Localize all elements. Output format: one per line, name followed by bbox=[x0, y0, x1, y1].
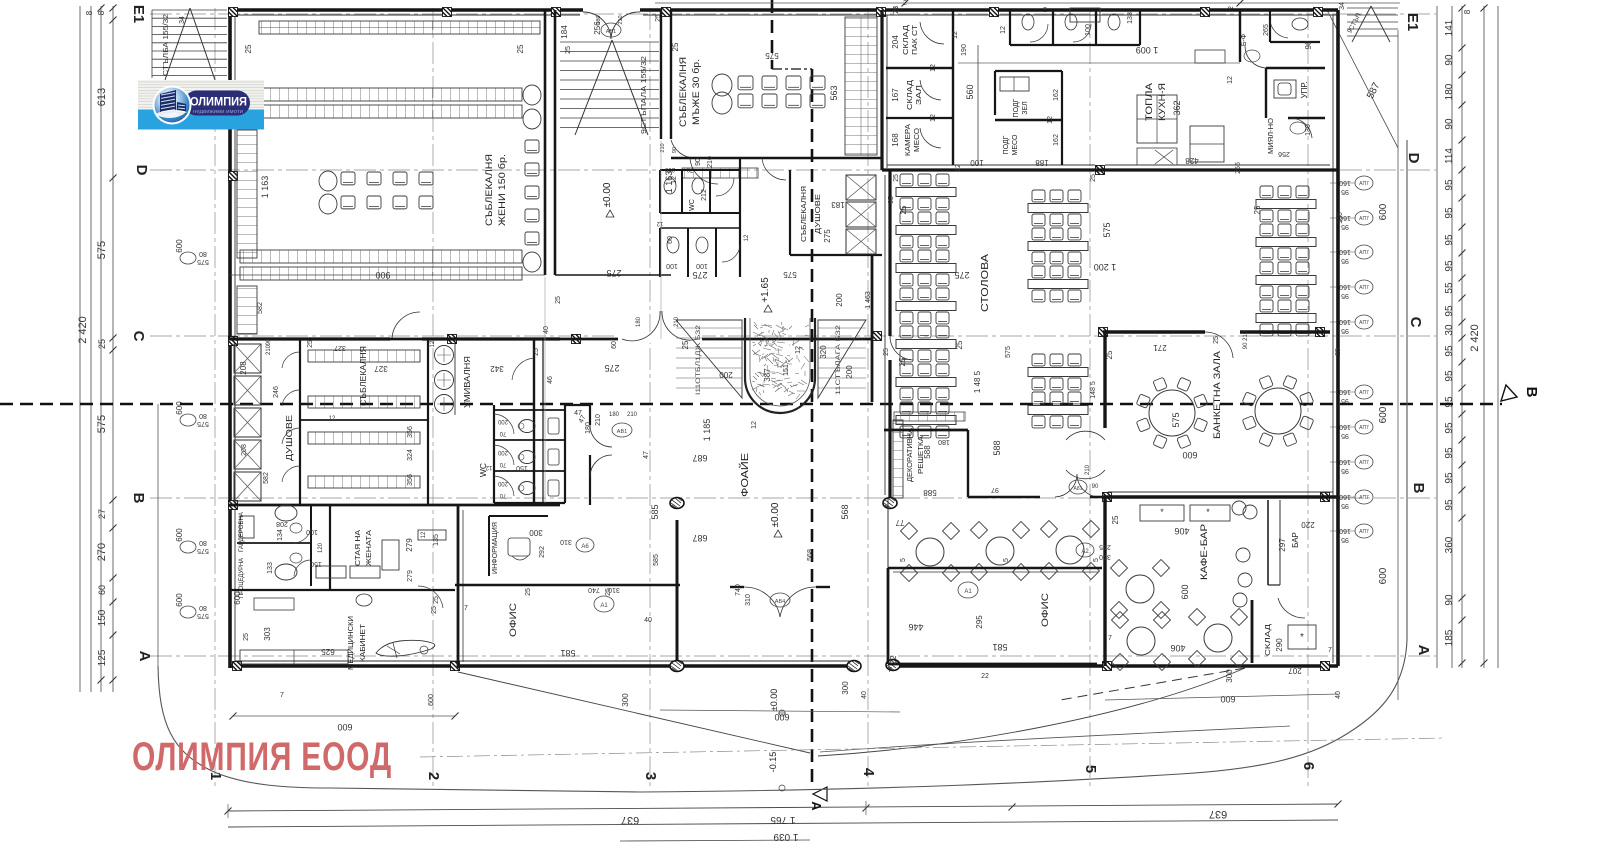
svg-text:687: 687 bbox=[692, 533, 707, 543]
svg-text:1 765: 1 765 bbox=[770, 814, 795, 825]
dining tables column C bbox=[1256, 186, 1316, 336]
svg-text:12: 12 bbox=[952, 31, 959, 39]
svg-text:АП7: АП7 bbox=[1359, 250, 1369, 256]
svg-text:АВ4: АВ4 bbox=[775, 599, 785, 605]
svg-text:208: 208 bbox=[241, 444, 248, 456]
svg-text:310: 310 bbox=[560, 538, 572, 545]
svg-text:34: 34 bbox=[1339, 2, 1346, 10]
svg-text:34: 34 bbox=[179, 16, 186, 24]
svg-text:25: 25 bbox=[955, 340, 964, 349]
svg-text:60: 60 bbox=[667, 236, 674, 244]
exterior stair top-right + 587 reference diagonal bbox=[1327, 2, 1398, 148]
svg-text:7: 7 bbox=[1328, 647, 1332, 654]
svg-text:25: 25 bbox=[655, 14, 662, 22]
svg-text:290: 290 bbox=[1275, 638, 1284, 652]
svg-text:СЪБЛЕКАЛНЯ: СЪБЛЕКАЛНЯ bbox=[484, 154, 495, 226]
svg-text:740: 740 bbox=[735, 584, 742, 596]
svg-text:МЕДИЦИНСКИ: МЕДИЦИНСКИ bbox=[346, 616, 355, 670]
svg-text:80: 80 bbox=[199, 412, 207, 419]
svg-text:637: 637 bbox=[1209, 808, 1227, 820]
svg-text:185: 185 bbox=[1444, 629, 1455, 646]
svg-text:ОЛИМПИЯ: ОЛИМПИЯ bbox=[190, 97, 247, 109]
svg-text:СКЛАД: СКЛАД bbox=[907, 80, 914, 110]
svg-text:220: 220 bbox=[1301, 520, 1315, 529]
svg-text:600: 600 bbox=[428, 694, 435, 706]
svg-text:406: 406 bbox=[1170, 643, 1185, 653]
svg-text:МИЯЛ-НО: МИЯЛ-НО bbox=[1268, 117, 1275, 154]
svg-text:256: 256 bbox=[1235, 162, 1242, 174]
svg-text:138: 138 bbox=[1127, 12, 1134, 24]
svg-text:256: 256 bbox=[593, 21, 602, 35]
svg-text:297: 297 bbox=[1278, 538, 1287, 552]
svg-text:342: 342 bbox=[490, 364, 504, 373]
svg-text:162: 162 bbox=[1053, 89, 1060, 101]
svg-text:275: 275 bbox=[692, 270, 707, 280]
svg-text:УПР.: УПР. bbox=[1300, 82, 1309, 99]
svg-text:95: 95 bbox=[1444, 472, 1455, 484]
svg-text:12: 12 bbox=[1000, 26, 1007, 34]
svg-text:300: 300 bbox=[841, 681, 850, 695]
svg-text:356: 356 bbox=[407, 426, 414, 438]
terrace x-tables bbox=[901, 523, 960, 582]
svg-text:60: 60 bbox=[611, 341, 618, 349]
svg-text:8: 8 bbox=[97, 10, 106, 15]
svg-text:25: 25 bbox=[1213, 336, 1220, 344]
svg-text:588: 588 bbox=[992, 440, 1002, 455]
svg-text:95: 95 bbox=[1444, 422, 1455, 434]
svg-text:А1: А1 bbox=[964, 589, 972, 595]
svg-text:СТЪЛБА 155/32: СТЪЛБА 155/32 bbox=[161, 14, 170, 76]
svg-text:148 5: 148 5 bbox=[1090, 381, 1097, 399]
svg-text:25: 25 bbox=[97, 339, 107, 349]
svg-text:114: 114 bbox=[1444, 148, 1455, 164]
svg-text:70: 70 bbox=[499, 492, 506, 498]
svg-text:95: 95 bbox=[1444, 396, 1455, 408]
svg-text:25: 25 bbox=[243, 633, 250, 641]
svg-text:E1: E1 bbox=[1404, 13, 1421, 31]
svg-text:90: 90 bbox=[1444, 54, 1455, 66]
svg-text:5: 5 bbox=[900, 558, 907, 562]
svg-text:160: 160 bbox=[1339, 527, 1351, 534]
svg-text:275: 275 bbox=[606, 268, 621, 278]
site boundary rounded outline bbox=[158, 30, 1445, 792]
svg-text:95: 95 bbox=[1341, 536, 1349, 543]
svg-text:95: 95 bbox=[1444, 370, 1455, 382]
svg-text:188: 188 bbox=[1035, 158, 1049, 167]
svg-text:600: 600 bbox=[1378, 567, 1389, 584]
svg-text:625: 625 bbox=[321, 647, 335, 656]
svg-text:25: 25 bbox=[431, 606, 438, 614]
svg-text:582: 582 bbox=[263, 472, 270, 484]
svg-text:133: 133 bbox=[267, 562, 274, 574]
svg-text:324: 324 bbox=[407, 449, 414, 461]
cafe tables bbox=[1041, 521, 1100, 580]
svg-text:160: 160 bbox=[1339, 423, 1351, 430]
svg-text:204: 204 bbox=[891, 35, 900, 49]
svg-text:25: 25 bbox=[1111, 515, 1120, 524]
svg-text:5: 5 bbox=[1093, 558, 1100, 562]
svg-text:7: 7 bbox=[888, 667, 892, 674]
svg-text:98: 98 bbox=[1304, 40, 1313, 49]
svg-text:560: 560 bbox=[965, 84, 975, 99]
banquet hall walls bbox=[1066, 332, 1338, 497]
svg-text:WC: WC bbox=[689, 199, 696, 211]
svg-text:В: В bbox=[1523, 387, 1540, 398]
svg-text:95: 95 bbox=[1341, 432, 1349, 439]
svg-text:9СТЪПАЛА 155/32: 9СТЪПАЛА 155/32 bbox=[641, 56, 648, 134]
svg-text:80: 80 bbox=[199, 604, 207, 611]
svg-text:279: 279 bbox=[405, 538, 414, 552]
svg-text:588: 588 bbox=[923, 445, 932, 459]
svg-text:25: 25 bbox=[433, 596, 440, 604]
svg-text:2: 2 bbox=[903, 0, 907, 7]
svg-text:95: 95 bbox=[1341, 257, 1349, 264]
svg-text:47: 47 bbox=[643, 451, 650, 459]
svg-text:135: 135 bbox=[433, 534, 440, 546]
svg-text:130: 130 bbox=[1305, 124, 1312, 136]
svg-text:ЗАЛ: ЗАЛ bbox=[916, 84, 923, 105]
cafe bar walls bbox=[1105, 497, 1316, 666]
svg-text:недвижими имоти: недвижими имоти bbox=[193, 109, 243, 115]
svg-text:600: 600 bbox=[175, 239, 184, 253]
decorative grille strip bbox=[893, 420, 903, 498]
svg-text:90: 90 bbox=[1444, 118, 1455, 130]
svg-text:12: 12 bbox=[329, 416, 336, 422]
svg-text:180: 180 bbox=[636, 316, 642, 327]
svg-text:3: 3 bbox=[642, 772, 659, 780]
svg-text:362: 362 bbox=[1172, 100, 1182, 115]
svg-text:А2: А2 bbox=[1081, 549, 1089, 555]
svg-text:12: 12 bbox=[751, 421, 758, 429]
svg-text:ТОПЛА: ТОПЛА bbox=[1144, 82, 1155, 121]
svg-text:160: 160 bbox=[1339, 318, 1351, 325]
svg-text:200: 200 bbox=[835, 293, 844, 307]
svg-text:200: 200 bbox=[664, 166, 675, 172]
svg-text:600: 600 bbox=[233, 591, 242, 605]
wall junction hatch squares bbox=[229, 8, 238, 17]
bottom dimension lines bbox=[225, 801, 1342, 843]
svg-text:I11ОТБЛ1ДЖ БЗ2: I11ОТБЛ1ДЖ БЗ2 bbox=[695, 325, 702, 395]
svg-text:30: 30 bbox=[1444, 324, 1455, 336]
svg-text:90 210: 90 210 bbox=[1243, 330, 1249, 349]
svg-text:12: 12 bbox=[421, 531, 427, 538]
svg-text:387: 387 bbox=[763, 368, 772, 382]
svg-text:АП7: АП7 bbox=[1359, 181, 1369, 187]
svg-text:150: 150 bbox=[310, 560, 322, 567]
svg-text:25: 25 bbox=[1253, 205, 1262, 214]
svg-text:ЖЕНИ 150 бр.: ЖЕНИ 150 бр. bbox=[497, 154, 508, 226]
svg-text:275: 275 bbox=[823, 229, 832, 243]
svg-text:600: 600 bbox=[774, 712, 789, 722]
svg-text:ГАРДЕРОБНА: ГАРДЕРОБНА bbox=[239, 512, 245, 552]
svg-text:ЗЕЛ: ЗЕЛ bbox=[1022, 101, 1029, 115]
svg-text:70: 70 bbox=[499, 461, 506, 467]
svg-text:25: 25 bbox=[1090, 174, 1097, 182]
svg-text:184: 184 bbox=[560, 25, 569, 39]
svg-text:ПОДГ: ПОДГ bbox=[1003, 135, 1010, 154]
svg-text:БАНКЕТНА ЗАЛА: БАНКЕТНА ЗАЛА bbox=[1212, 350, 1223, 439]
svg-text:4: 4 bbox=[860, 768, 877, 777]
svg-text:B: B bbox=[130, 493, 147, 504]
svg-text:АП7: АП7 bbox=[1359, 320, 1369, 326]
svg-text:600: 600 bbox=[1378, 406, 1389, 423]
svg-text:УМИВАЛНЯ: УМИВАЛНЯ bbox=[462, 356, 472, 408]
svg-text:270: 270 bbox=[96, 543, 108, 561]
svg-text:90: 90 bbox=[1444, 594, 1455, 606]
left dimension chain bbox=[77, 5, 209, 693]
kitchen block walls bbox=[882, 8, 1338, 170]
svg-text:160: 160 bbox=[1339, 248, 1351, 255]
svg-text:160: 160 bbox=[1337, 212, 1344, 224]
svg-text:12: 12 bbox=[795, 346, 802, 354]
svg-text:E1: E1 bbox=[130, 5, 147, 23]
svg-text:292: 292 bbox=[539, 546, 546, 558]
svg-text:1 200: 1 200 bbox=[1094, 262, 1117, 272]
svg-text:СЪБЛЕКАЛНЯ: СЪБЛЕКАЛНЯ bbox=[801, 186, 808, 242]
svg-text:АП7: АП7 bbox=[1359, 495, 1369, 501]
svg-text:22: 22 bbox=[981, 673, 989, 680]
svg-text:ПАК СТ: ПАК СТ bbox=[912, 24, 919, 55]
svg-text:160: 160 bbox=[1339, 388, 1351, 395]
svg-text:2 420: 2 420 bbox=[77, 316, 89, 344]
svg-text:585: 585 bbox=[650, 504, 660, 519]
svg-text:8: 8 bbox=[1463, 9, 1472, 14]
svg-text:446: 446 bbox=[908, 622, 923, 632]
svg-text:A: A bbox=[136, 651, 153, 662]
svg-text:600: 600 bbox=[1378, 203, 1389, 220]
svg-text:12: 12 bbox=[744, 234, 750, 241]
svg-text:А1: А1 bbox=[600, 603, 608, 609]
svg-text:95: 95 bbox=[1444, 447, 1455, 459]
svg-text:40: 40 bbox=[644, 617, 652, 624]
svg-text:2: 2 bbox=[1043, 7, 1047, 14]
svg-text:320: 320 bbox=[819, 345, 828, 359]
svg-text:ОФИС: ОФИС bbox=[508, 602, 518, 637]
svg-text:125: 125 bbox=[97, 649, 108, 666]
svg-text:12: 12 bbox=[485, 464, 492, 470]
svg-text:ЖЕНАТА: ЖЕНАТА bbox=[364, 530, 373, 566]
exterior stair top-left bbox=[152, 8, 227, 80]
svg-text:95: 95 bbox=[1444, 345, 1455, 357]
section line A-A vertical bbox=[771, 0, 774, 69]
stair treads bbox=[560, 21, 659, 135]
svg-text:141: 141 bbox=[1444, 19, 1455, 36]
svg-text:СКЛАД: СКЛАД bbox=[1263, 624, 1272, 656]
svg-text:Б-Ф: Б-Ф bbox=[1241, 34, 1248, 46]
bar stools bbox=[1232, 501, 1246, 515]
svg-text:АВ1: АВ1 bbox=[606, 29, 616, 35]
svg-text:575: 575 bbox=[197, 612, 209, 619]
svg-text:7: 7 bbox=[1108, 635, 1112, 642]
svg-text:25: 25 bbox=[525, 588, 532, 596]
svg-text:±0.00: ±0.00 bbox=[770, 502, 781, 527]
svg-text:208: 208 bbox=[276, 520, 288, 527]
svg-text:95: 95 bbox=[1444, 260, 1455, 272]
svg-text:160: 160 bbox=[1339, 283, 1351, 290]
svg-text:600: 600 bbox=[337, 722, 352, 732]
svg-text:АП7: АП7 bbox=[1359, 460, 1369, 466]
svg-text:575: 575 bbox=[197, 420, 209, 427]
svg-text:200: 200 bbox=[497, 480, 508, 486]
svg-text:600: 600 bbox=[175, 528, 184, 542]
svg-text:310: 310 bbox=[745, 594, 752, 606]
svg-text:МЪЖЕ 30 бр.: МЪЖЕ 30 бр. bbox=[691, 59, 702, 125]
svg-text:МЕСО: МЕСО bbox=[1012, 134, 1019, 155]
svg-text:575: 575 bbox=[197, 547, 209, 554]
svg-text:160: 160 bbox=[1339, 179, 1351, 186]
svg-text:600: 600 bbox=[1182, 450, 1197, 460]
svg-text:БАР: БАР bbox=[1291, 532, 1300, 548]
svg-text:95: 95 bbox=[1341, 292, 1349, 299]
svg-text:40: 40 bbox=[861, 691, 868, 699]
showers and lockers middle-left block bbox=[229, 339, 560, 505]
svg-text:1 48 5: 1 48 5 bbox=[973, 370, 982, 393]
svg-text:АП7: АП7 bbox=[1359, 529, 1369, 535]
svg-text:ДУШОВЕ: ДУШОВЕ bbox=[284, 415, 294, 461]
svg-text:ОЛИМПИЯ ЕООД: ОЛИМПИЯ ЕООД bbox=[132, 735, 392, 779]
svg-text:АВ1: АВ1 bbox=[617, 429, 627, 435]
svg-text:575: 575 bbox=[765, 51, 779, 60]
svg-text:7: 7 bbox=[464, 605, 468, 612]
svg-text:25: 25 bbox=[533, 348, 540, 356]
svg-text:285: 285 bbox=[1099, 543, 1111, 550]
svg-text:80: 80 bbox=[199, 250, 207, 257]
svg-text:360: 360 bbox=[1444, 536, 1455, 553]
svg-text:183: 183 bbox=[831, 200, 845, 209]
svg-text:279: 279 bbox=[407, 570, 414, 582]
svg-text:А6: А6 bbox=[581, 544, 589, 550]
svg-text:356: 356 bbox=[407, 474, 414, 486]
svg-text:212: 212 bbox=[701, 189, 708, 201]
svg-text:581: 581 bbox=[560, 648, 575, 658]
svg-text:25: 25 bbox=[307, 340, 314, 348]
svg-text:25: 25 bbox=[893, 174, 900, 182]
svg-text:5: 5 bbox=[1003, 558, 1010, 562]
svg-text:210: 210 bbox=[627, 412, 638, 418]
dining tables column A bbox=[896, 174, 956, 438]
svg-text:180: 180 bbox=[938, 438, 950, 445]
svg-text:100: 100 bbox=[306, 528, 318, 535]
svg-text:210: 210 bbox=[1085, 464, 1091, 475]
svg-text:1 163: 1 163 bbox=[260, 176, 270, 199]
svg-text:100: 100 bbox=[1085, 24, 1092, 36]
svg-text:±0.00: ±0.00 bbox=[769, 689, 779, 711]
svg-text:ОФИС: ОФИС bbox=[1040, 592, 1050, 627]
svg-text:25: 25 bbox=[893, 6, 900, 14]
svg-text:80: 80 bbox=[199, 539, 207, 546]
svg-text:27: 27 bbox=[97, 509, 107, 519]
right dimension chain bbox=[1330, 5, 1498, 669]
svg-text:95: 95 bbox=[1341, 188, 1349, 195]
svg-text:120: 120 bbox=[318, 542, 324, 553]
svg-text:600: 600 bbox=[1180, 584, 1190, 599]
svg-text:100: 100 bbox=[696, 262, 708, 269]
svg-text:575: 575 bbox=[783, 270, 797, 279]
svg-text:25: 25 bbox=[1335, 348, 1342, 356]
svg-text:271: 271 bbox=[1153, 343, 1167, 352]
svg-text:*: * bbox=[1206, 507, 1210, 517]
svg-text:208: 208 bbox=[239, 361, 248, 375]
svg-text:D: D bbox=[133, 165, 150, 176]
svg-text:25: 25 bbox=[605, 588, 612, 596]
svg-text:180: 180 bbox=[585, 422, 592, 434]
svg-text:ФОАЙЕ: ФОАЙЕ bbox=[738, 453, 751, 497]
svg-text:1 185: 1 185 bbox=[702, 419, 712, 442]
svg-text:25: 25 bbox=[555, 296, 562, 304]
svg-text:55: 55 bbox=[1444, 282, 1455, 294]
svg-text:300: 300 bbox=[621, 693, 630, 707]
svg-text:575: 575 bbox=[1005, 346, 1012, 358]
svg-text:СЪБЛЕКАЛНЯ: СЪБЛЕКАЛНЯ bbox=[359, 346, 368, 406]
svg-text:12: 12 bbox=[430, 340, 436, 347]
svg-text:25: 25 bbox=[516, 44, 525, 53]
svg-text:327: 327 bbox=[334, 344, 346, 351]
svg-text:90: 90 bbox=[266, 338, 272, 345]
svg-text:210: 210 bbox=[707, 156, 714, 168]
svg-text:МЕСО: МЕСО bbox=[914, 127, 921, 152]
svg-text:200: 200 bbox=[719, 370, 733, 379]
svg-text:8: 8 bbox=[85, 10, 94, 15]
svg-text:150: 150 bbox=[516, 464, 528, 471]
svg-text:70: 70 bbox=[499, 430, 506, 436]
svg-text:5: 5 bbox=[1082, 765, 1099, 773]
central entrance stair core with planter bbox=[229, 255, 872, 413]
svg-text:95: 95 bbox=[1444, 305, 1455, 317]
medical block walls bbox=[229, 505, 463, 668]
svg-text:613: 613 bbox=[96, 88, 108, 106]
svg-text:60: 60 bbox=[97, 585, 107, 595]
svg-text:12: 12 bbox=[1047, 116, 1054, 124]
svg-text:95: 95 bbox=[1341, 502, 1349, 509]
svg-text:568: 568 bbox=[840, 504, 850, 519]
svg-text:12: 12 bbox=[930, 64, 937, 72]
svg-text:7: 7 bbox=[280, 692, 284, 699]
svg-text:200: 200 bbox=[845, 365, 854, 379]
svg-text:46: 46 bbox=[547, 376, 554, 384]
svg-text:77: 77 bbox=[895, 518, 904, 527]
svg-text:12: 12 bbox=[671, 176, 678, 184]
svg-text:11СТЪЛАГА БЗ2: 11СТЪЛАГА БЗ2 bbox=[835, 324, 842, 395]
svg-text:12: 12 bbox=[955, 164, 962, 172]
svg-text:327: 327 bbox=[374, 364, 388, 373]
svg-text:256: 256 bbox=[1278, 150, 1290, 157]
svg-text:СКЛАД: СКЛАД bbox=[903, 25, 910, 55]
svg-text:100: 100 bbox=[666, 262, 678, 269]
svg-text:12: 12 bbox=[656, 220, 663, 226]
svg-text:1 039: 1 039 bbox=[773, 831, 798, 842]
top edge thin line with 2 ticks bbox=[655, 2, 1400, 4]
svg-text:582: 582 bbox=[257, 302, 264, 314]
wc stalls central bbox=[485, 405, 638, 505]
svg-text:95: 95 bbox=[1444, 179, 1455, 191]
office room 1 bbox=[455, 520, 680, 666]
svg-text:КАФЕ-БАР: КАФЕ-БАР bbox=[1199, 524, 1210, 580]
svg-text:265: 265 bbox=[1263, 24, 1270, 36]
svg-text:162: 162 bbox=[1053, 134, 1060, 146]
svg-text:25: 25 bbox=[244, 44, 253, 53]
svg-text:600: 600 bbox=[175, 593, 184, 607]
svg-text:300: 300 bbox=[529, 528, 543, 537]
svg-text:70: 70 bbox=[686, 166, 693, 172]
svg-text:25: 25 bbox=[883, 348, 890, 356]
svg-text:275: 275 bbox=[954, 270, 969, 280]
svg-text:1 463: 1 463 bbox=[865, 291, 872, 309]
svg-text:246: 246 bbox=[273, 386, 280, 398]
svg-text:СТОЛОВА: СТОЛОВА bbox=[980, 254, 991, 312]
svg-text:25: 25 bbox=[671, 42, 680, 51]
svg-text:40: 40 bbox=[1335, 691, 1342, 699]
svg-text:151: 151 bbox=[783, 364, 790, 376]
